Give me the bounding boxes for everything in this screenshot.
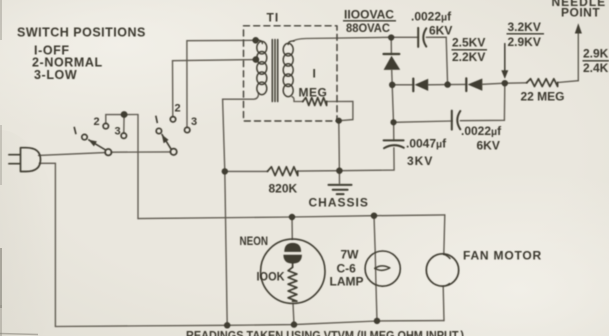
svg-text:2: 2 [94, 116, 100, 128]
junction bottom bus neon [291, 321, 297, 327]
wire S2 contact 3 to transformer top [187, 40, 256, 127]
svg-text:7W: 7W [341, 248, 360, 262]
chassis ground symbol [329, 185, 352, 194]
wire diode row segments [392, 81, 578, 85]
svg-text:LAMP: LAMP [330, 275, 364, 289]
wire plug bottom return [40, 163, 56, 326]
wire diode D1 to row [391, 70, 394, 85]
svg-text:MEG: MEG [299, 86, 328, 100]
svg-text:3KV: 3KV [407, 154, 433, 168]
svg-text:3: 3 [191, 116, 197, 128]
junction primary top [252, 37, 259, 44]
junction bottom bus x227 [224, 322, 230, 328]
junction 820K left [222, 168, 228, 174]
svg-text:SWITCH POSITIONS: SWITCH POSITIONS [17, 26, 146, 40]
wire neon bottom [293, 303, 294, 324]
fan motor connection tabs [442, 254, 451, 286]
junction S1 positions 2-3 [121, 111, 128, 118]
switch S1 arm [89, 140, 106, 150]
switch S1 pole [105, 149, 111, 155]
arrow 3.2KV pointer (down) [504, 44, 506, 72]
switch S2 arm [162, 135, 171, 150]
svg-text:3: 3 [115, 126, 121, 138]
wire S2 contact 2 to transformer tap [173, 60, 256, 117]
lamp I1 filament [375, 266, 390, 270]
resistor R4 100K (in neon assembly) [292, 263, 294, 267]
arrow needle point (up) [575, 23, 582, 33]
wire cap C2 to riser up to diode row [460, 83, 505, 121]
wire mid bus [138, 215, 445, 219]
svg-text:.0047μf: .0047μf [406, 137, 447, 151]
transformer T1 dashed enclosure [244, 26, 338, 121]
svg-text:820K: 820K [269, 182, 298, 196]
switch S2 pole [170, 149, 176, 155]
wire fan motor top riser [444, 215, 445, 254]
transformer T1 primary winding [256, 40, 267, 94]
wire diode D1 branch top [390, 38, 392, 54]
svg-text:CHASSIS: CHASSIS [309, 196, 369, 210]
svg-text:2.5KV: 2.5KV [452, 36, 485, 50]
resistor R2 820K [268, 167, 298, 176]
neon indicator NE1 envelope [261, 239, 325, 303]
switch S1 arm arrowhead [88, 140, 97, 147]
wire cap C1 right then down to diode row [426, 37, 447, 84]
wire chassis ground stub [338, 171, 340, 184]
svg-text:IIOOVAC: IIOOVAC [344, 8, 394, 22]
wire neon drop [291, 217, 293, 239]
junction lower node [390, 119, 396, 125]
underline 2.9K [583, 60, 609, 62]
wire plug top to switch S1 pole [39, 153, 106, 156]
svg-text:.0022μf: .0022μf [411, 10, 452, 24]
junction top wire / D1 [388, 34, 394, 40]
wire lower node to cap C2 [394, 121, 452, 122]
wire fan motor bottom riser [442, 286, 445, 320]
wire chassis row with 820K [225, 170, 340, 173]
svg-text:TI: TI [267, 11, 280, 25]
wire lower node down to cap C3 [393, 122, 395, 140]
resistor R3 22 MEG [527, 79, 558, 87]
switch S2 contact 1 [156, 128, 161, 133]
resistor R1 1 MEG [303, 98, 327, 106]
wire left drop from S1 junction to mid bus [137, 115, 139, 219]
wire bottom bus [55, 321, 444, 327]
svg-text:NEON: NEON [240, 234, 269, 248]
underline 1100VAC [343, 20, 396, 22]
junction diode row right [502, 80, 508, 86]
switch S1 contact 2 [103, 123, 108, 128]
svg-text:3.2KV: 3.2KV [508, 20, 541, 34]
svg-text:IOOK: IOOK [257, 270, 285, 284]
wire S1 pole to S2 pole [112, 151, 171, 153]
svg-text:6KV: 6KV [477, 139, 500, 153]
wire transformer primary bottom [223, 93, 259, 171]
switch S2 arm arrowhead [162, 135, 169, 144]
neon NE1 lamp electrodes [284, 243, 301, 252]
svg-text:.0022μf: .0022μf [461, 124, 502, 138]
svg-text:22 MEG: 22 MEG [521, 90, 565, 104]
capacitor C1 .0022uf 6KV plates [418, 28, 426, 47]
svg-text:READINGS TAKEN USING VTVM (II: READINGS TAKEN USING VTVM (II MEG OHM IN… [186, 329, 464, 336]
svg-text:2.9KV: 2.9KV [508, 35, 541, 49]
capacitor C2 .0022uf 6KV plates [452, 111, 461, 130]
diode D2 [412, 79, 414, 92]
junction bottom bus lamp [374, 318, 380, 324]
junction mid bus lamp [371, 213, 377, 219]
wire 1MEG secondary bottom hook [292, 97, 303, 102]
underline 2.5KV [452, 49, 488, 51]
scan smear bottom left [0, 334, 38, 335]
diode D1 [384, 53, 400, 55]
svg-text:6KV: 6KV [429, 24, 452, 38]
svg-text:POINT: POINT [561, 6, 600, 20]
svg-text:2: 2 [175, 103, 181, 115]
svg-text:FAN MOTOR: FAN MOTOR [463, 249, 542, 263]
wire S1 contact 3 up [123, 115, 125, 133]
capacitor C3 .0047uf 3KV plates [384, 140, 404, 148]
svg-text:3-LOW: 3-LOW [34, 68, 77, 82]
junction diode row left [389, 82, 395, 88]
fan motor B1 envelope [426, 254, 458, 286]
svg-text:2.9K: 2.9K [583, 47, 609, 61]
junction chassis node [336, 168, 342, 174]
wire vertical x225 mid to bottom [225, 171, 227, 325]
svg-text:2.4K: 2.4K [583, 61, 609, 75]
wire 1MEG right return to chassis node [327, 101, 353, 170]
svg-text:88OVAC: 88OVAC [346, 21, 390, 35]
wire S1 contacts 2-3 to junction [106, 115, 138, 124]
wire cap C3 bottom to chassis row [339, 148, 394, 171]
transformer T1 secondary winding [283, 41, 294, 97]
junction primary tap [253, 56, 260, 63]
svg-text:I: I [313, 67, 316, 81]
junction diode row mid [444, 81, 450, 87]
switch S1 contact 1 [82, 134, 87, 139]
switch S2 contact 3 [185, 127, 190, 132]
svg-text:C-6: C-6 [337, 262, 357, 276]
wire secondary top to cap C1 [294, 37, 418, 41]
plug P1 [9, 148, 41, 172]
switch S2 contact 2 [170, 117, 175, 122]
wire lamp through-line [374, 216, 377, 321]
lamp I1 7W C-6 envelope [365, 251, 400, 286]
diode D3 [465, 78, 467, 91]
switch S1 contact 3 [121, 133, 126, 138]
junction 1MEG return [336, 118, 342, 124]
junction mid bus neon [289, 214, 295, 220]
underline 3.2KV [507, 33, 545, 35]
wire needle point riser [577, 33, 579, 81]
wire D1 junction down to lower node [392, 85, 393, 123]
svg-text:2.2KV: 2.2KV [452, 50, 485, 64]
transformer T1 core [272, 40, 277, 102]
